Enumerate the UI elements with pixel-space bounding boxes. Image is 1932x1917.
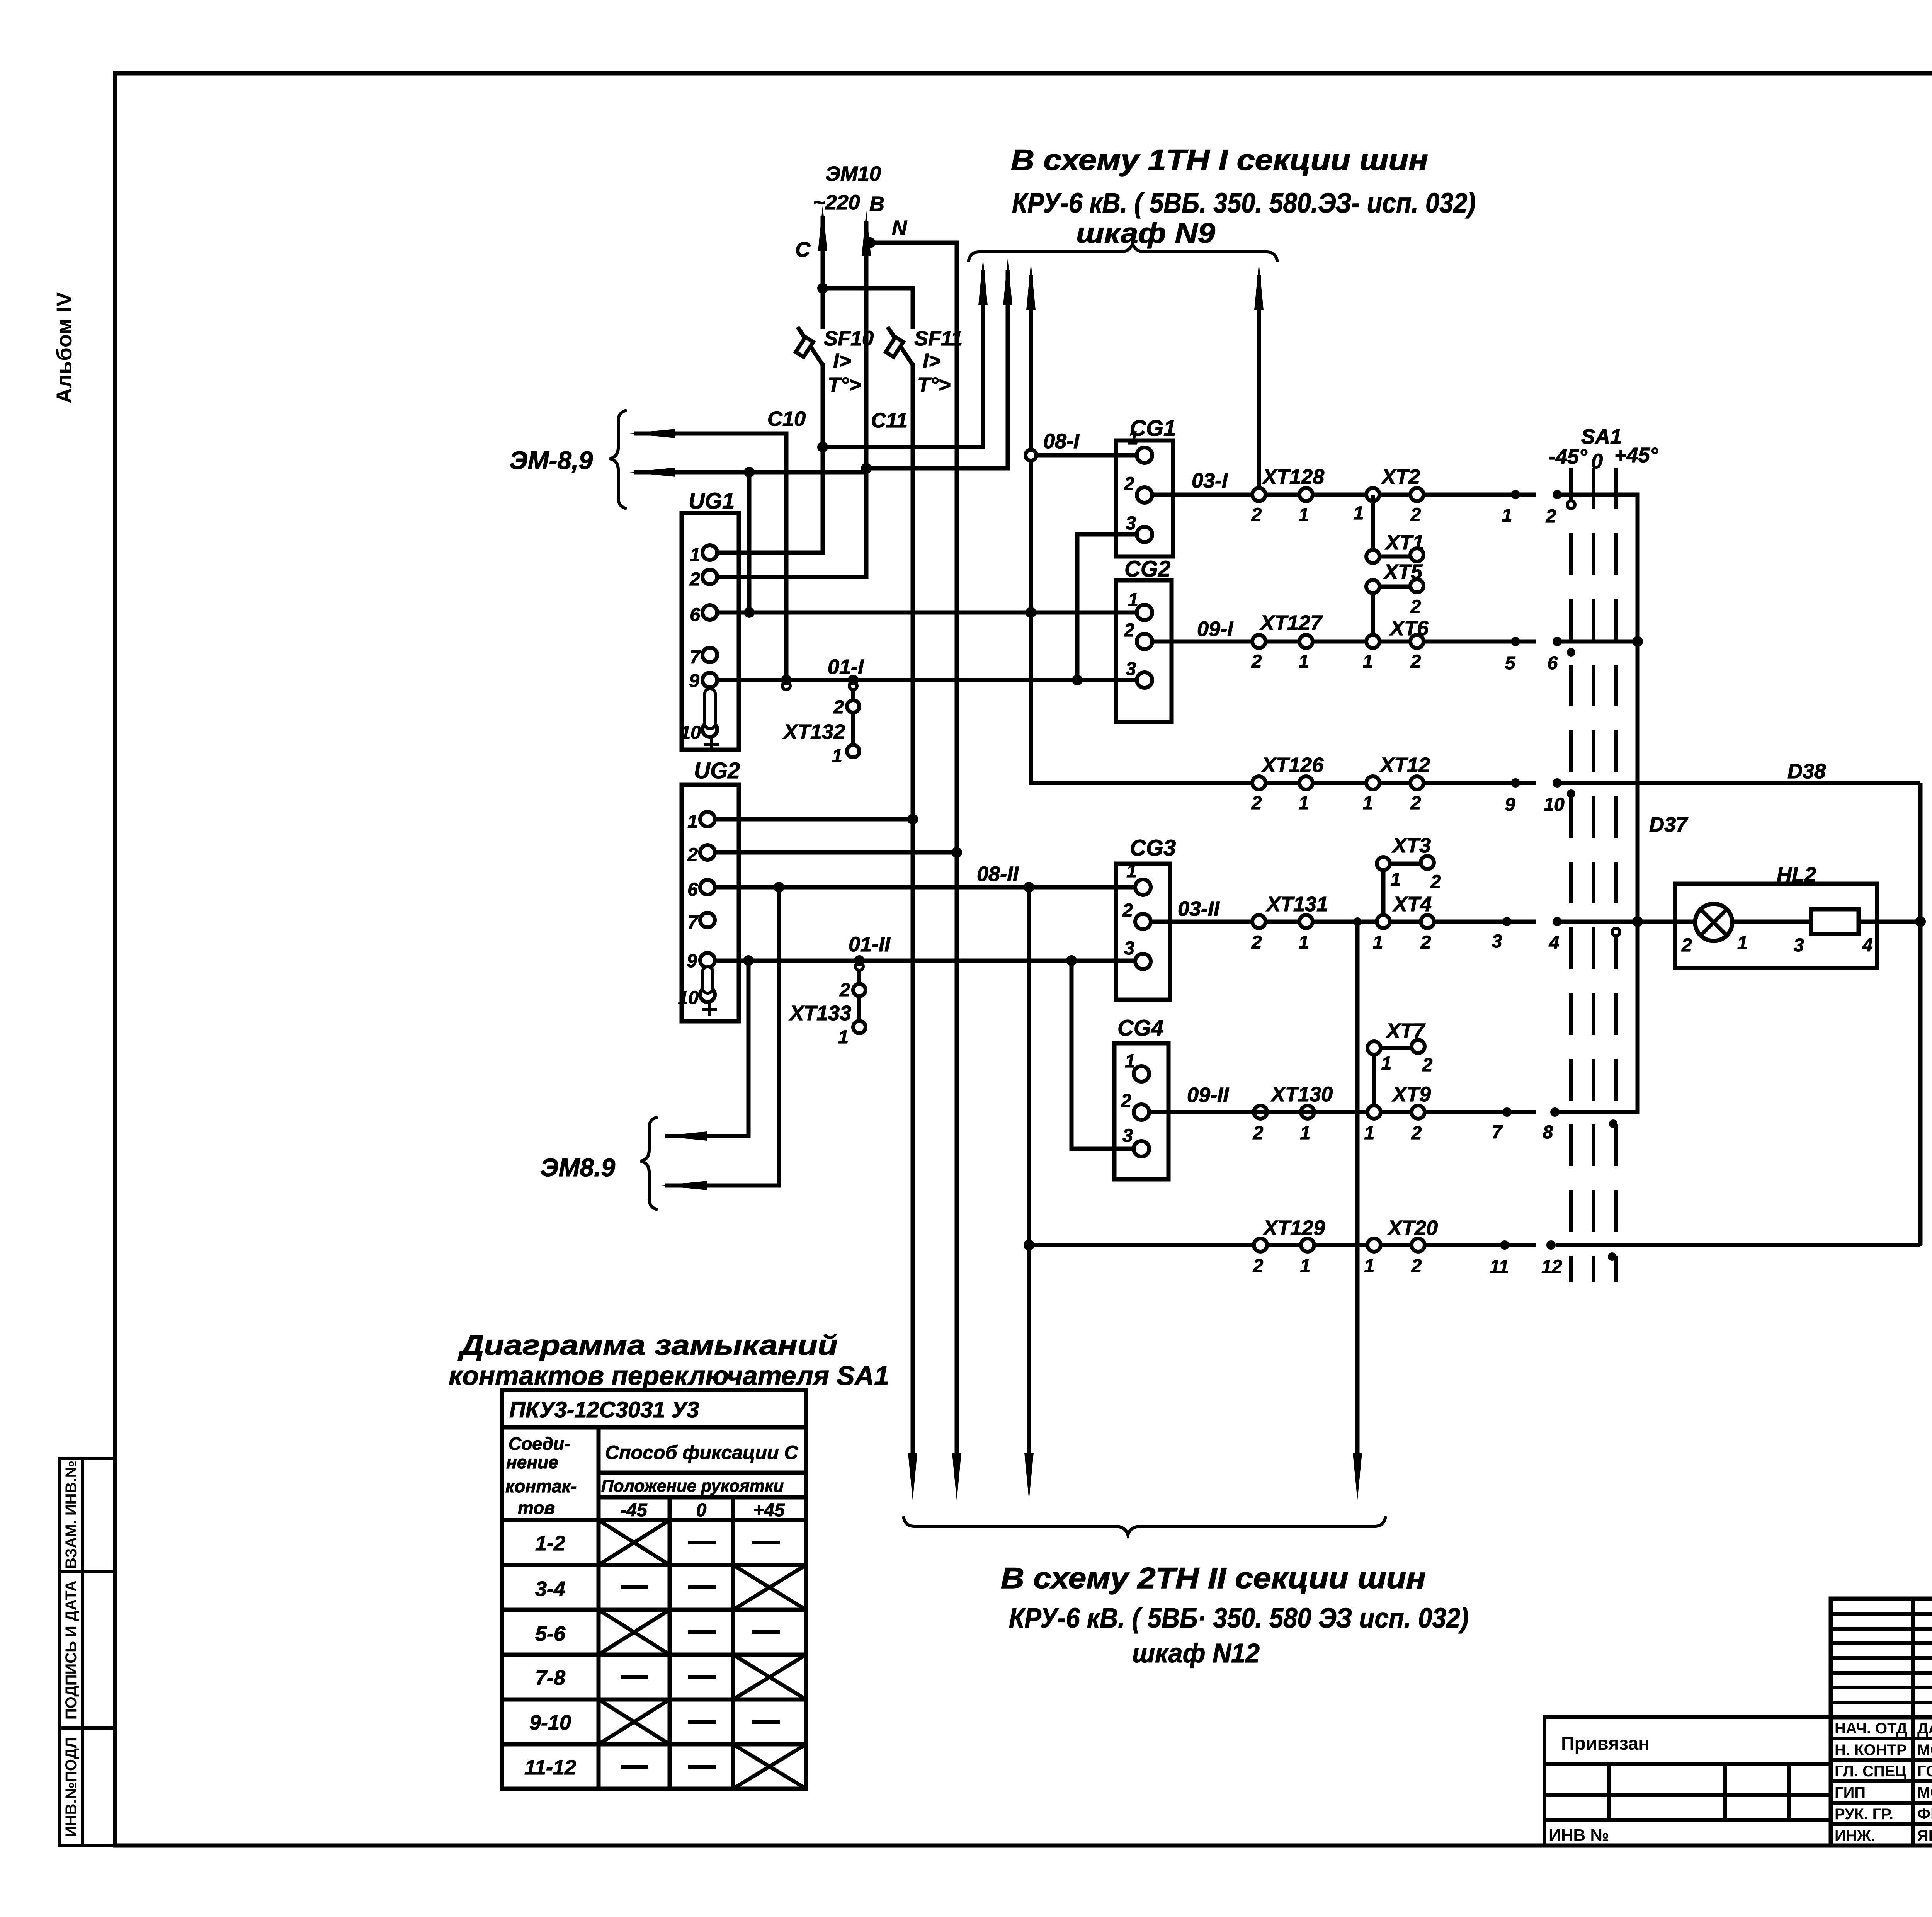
svg-text:3: 3: [1124, 938, 1134, 959]
terminal XT2: [1354, 465, 1423, 525]
svg-text:01-I: 01-I: [828, 655, 864, 679]
svg-text:-45°: -45°: [1549, 445, 1587, 468]
svg-text:2: 2: [1681, 935, 1692, 956]
wire UG2 pin 9 branch to ЭМ8,9: [661, 961, 748, 1141]
terminal XT131: [1251, 893, 1328, 953]
svg-text:2: 2: [1121, 1091, 1131, 1111]
breaker SF10: [796, 327, 874, 396]
svg-text:XT1: XT1: [1384, 531, 1424, 554]
svg-text:ЭМ-8,9: ЭМ-8,9: [509, 446, 593, 475]
svg-text:1: 1: [1300, 1256, 1311, 1276]
svg-text:МОСЕЕНКО: МОСЕЕНКО: [1917, 1742, 1932, 1759]
svg-text:N: N: [892, 216, 907, 240]
wire B branch to ЭМ-8,9: [629, 468, 866, 477]
svg-text:9-10: 9-10: [529, 1711, 571, 1734]
svg-text:08-II: 08-II: [977, 862, 1019, 886]
svg-text:5: 5: [1505, 653, 1516, 674]
svg-text:3: 3: [1492, 931, 1502, 952]
svg-text:10: 10: [680, 723, 701, 743]
wire C11 line down arrow: [908, 1453, 917, 1500]
svg-text:~220: ~220: [813, 191, 860, 214]
svg-text:ГОЛЬЦМАН: ГОЛЬЦМАН: [1917, 1763, 1932, 1780]
wire 08-II branch to ЭМ8,9: [661, 887, 779, 1190]
wire 08 line (arrow 3 down to 9-10 row corner): [1026, 263, 1920, 783]
svg-text:В схему 1ТН I секции шин: В схему 1ТН I секции шин: [1011, 144, 1428, 177]
svg-text:2: 2: [1251, 651, 1262, 672]
wire 01-II (UG2 pin 9 to CG3 pin 3): [715, 959, 1135, 963]
svg-text:C11: C11: [871, 409, 908, 432]
svg-text:В схему 2ТН II секции шин: В схему 2ТН II секции шин: [1001, 1562, 1426, 1595]
svg-text:Соеди-: Соеди-: [509, 1434, 570, 1454]
svg-text:XT132: XT132: [782, 720, 845, 743]
wire phase B vertical to UG1 pin 2: [718, 221, 866, 577]
svg-text:XT130: XT130: [1270, 1083, 1333, 1106]
svg-text:2: 2: [1411, 1256, 1422, 1276]
svg-text:1: 1: [690, 545, 700, 565]
svg-text:7: 7: [687, 912, 699, 933]
svg-text:01-II: 01-II: [849, 933, 891, 956]
svg-text:2: 2: [1251, 505, 1262, 525]
svg-text:ИНЖ.: ИНЖ.: [1835, 1827, 1875, 1844]
converter CG3: [1116, 835, 1176, 1000]
svg-text:2: 2: [689, 569, 700, 590]
wire 08-II (UG2 pin 6 to CG3 pin 1): [715, 885, 1135, 890]
terminal XT128: [1251, 465, 1324, 525]
terminal XT133: [789, 961, 866, 1048]
svg-text:1: 1: [1299, 932, 1309, 953]
svg-text:1: 1: [687, 811, 698, 832]
svg-text:XT20: XT20: [1387, 1216, 1438, 1240]
svg-text:1: 1: [1373, 932, 1383, 953]
svg-text:-45: -45: [620, 1500, 648, 1521]
svg-text:3: 3: [1126, 659, 1136, 679]
terminal XT7: [1367, 1019, 1433, 1112]
terminal XT20: [1364, 1216, 1438, 1276]
svg-text:3: 3: [1122, 1126, 1133, 1146]
svg-text:НАЧ. ОТД: НАЧ. ОТД: [1835, 1720, 1907, 1737]
contact closure table title: [449, 1330, 889, 1391]
svg-text:Диаграмма замыканий: Диаграмма замыканий: [457, 1330, 838, 1361]
note to scheme 1TH section I: [1011, 144, 1476, 249]
converter CG1: [1116, 416, 1176, 556]
contact closure table: [502, 1390, 806, 1789]
switch SA1 contacts 9-10: [1505, 778, 1575, 815]
svg-text:10: 10: [1544, 794, 1565, 815]
svg-text:1: 1: [1128, 590, 1138, 610]
wire phase C vertical: [718, 216, 823, 553]
svg-text:1: 1: [1502, 505, 1512, 526]
svg-text:6: 6: [687, 879, 698, 900]
svg-text:10: 10: [678, 988, 699, 1008]
svg-text:Привязан: Привязан: [1561, 1733, 1650, 1754]
svg-text:UG1: UG1: [689, 488, 735, 514]
svg-text:UG2: UG2: [694, 758, 740, 783]
svg-text:контак-: контак-: [505, 1476, 577, 1496]
wire 01-I from UG1 pin 9 to CG2 pin 3: [717, 678, 1137, 682]
svg-text:03-I: 03-I: [1192, 469, 1228, 492]
svg-text:ПОДПИСЬ И ДАТА: ПОДПИСЬ И ДАТА: [63, 1580, 80, 1720]
svg-text:T°>: T°>: [828, 373, 861, 396]
svg-text:Альбом IV: Альбом IV: [52, 292, 76, 403]
svg-text:11-12: 11-12: [524, 1756, 576, 1779]
switch SA1 contacts 7-8: [1492, 1107, 1617, 1143]
svg-text:09-II: 09-II: [1187, 1084, 1229, 1107]
svg-text:4: 4: [1862, 935, 1873, 956]
svg-text:2: 2: [1422, 1055, 1433, 1075]
svg-text:1: 1: [832, 746, 842, 766]
svg-text:7: 7: [690, 647, 701, 668]
svg-text:1: 1: [1126, 861, 1137, 881]
wire up-arrow 4 from XT128.2: [1254, 263, 1264, 488]
svg-text:XT9: XT9: [1391, 1083, 1431, 1106]
svg-text:09-I: 09-I: [1197, 617, 1233, 641]
switch SA1 contacts 3-4: [1492, 917, 1620, 953]
wire N loop (phase B to cabinet): [870, 243, 957, 1474]
svg-text:XT133: XT133: [789, 1002, 851, 1025]
svg-text:XT127: XT127: [1259, 611, 1323, 634]
svg-text:2: 2: [1410, 505, 1421, 525]
svg-text:0: 0: [1591, 450, 1603, 473]
breaker SF11: [886, 327, 963, 396]
svg-text:7: 7: [1492, 1122, 1503, 1143]
svg-text:+45: +45: [753, 1500, 785, 1521]
svg-text:1: 1: [1363, 651, 1373, 672]
svg-text:шкаф N12: шкаф N12: [1132, 1638, 1260, 1668]
svg-text:3: 3: [1794, 935, 1804, 956]
svg-text:1: 1: [1363, 793, 1373, 813]
wire 03-I row (CG1.2 to SA1 1-2 and D37): [1152, 495, 1638, 1112]
node C (phase C input ЭМ10): [795, 206, 827, 261]
svg-text:XT4: XT4: [1392, 893, 1432, 916]
svg-text:C: C: [795, 238, 811, 261]
svg-text:2: 2: [1410, 597, 1421, 617]
note to scheme 2TH section II: [1001, 1562, 1469, 1668]
svg-text:МОСЕЕНКО: МОСЕЕНКО: [1917, 1784, 1932, 1801]
svg-text:+45°: +45°: [1614, 444, 1658, 467]
svg-text:КРУ-6 кВ. ( 5ВБ. 350. 580.ЭЗ-: КРУ-6 кВ. ( 5ВБ. 350. 580.ЭЗ- исп. 032): [1012, 188, 1476, 219]
svg-text:ГЛ. СПЕЦ: ГЛ. СПЕЦ: [1835, 1763, 1906, 1780]
svg-text:ДАНИЛОВ: ДАНИЛОВ: [1917, 1720, 1932, 1737]
terminal XT4: [1373, 893, 1434, 953]
svg-text:2: 2: [839, 980, 850, 1000]
junction dots UG2 area: [743, 814, 1077, 1250]
label SA1 -45 0 +45: [1549, 425, 1658, 473]
svg-text:2: 2: [1420, 932, 1431, 953]
wire to cabinet arrow 2 (from B row): [866, 258, 1012, 468]
wire D37 junction dots: [1632, 636, 1643, 927]
svg-text:D37: D37: [1649, 813, 1689, 836]
svg-text:нение: нение: [506, 1452, 558, 1472]
wire UG1 pin 6 to CG2 pin 1: [717, 611, 1137, 615]
svg-text:2: 2: [1251, 932, 1262, 953]
wire 03-II row (CG3.2 toward HL2): [1151, 920, 1920, 924]
wire branch 01-II to CG4 pin 3: [1071, 961, 1134, 1149]
svg-text:I>: I>: [833, 349, 851, 373]
svg-text:2: 2: [833, 697, 844, 718]
svg-text:1: 1: [1299, 505, 1309, 525]
svg-text:5-6: 5-6: [535, 1622, 566, 1645]
svg-text:0: 0: [696, 1500, 707, 1521]
svg-text:1: 1: [1125, 1051, 1135, 1072]
svg-text:I>: I>: [923, 349, 941, 373]
svg-text:ИНВ №: ИНВ №: [1549, 1826, 1609, 1845]
svg-text:1: 1: [1299, 651, 1309, 672]
svg-text:ЭМ10: ЭМ10: [825, 162, 881, 185]
switch SA1 contacts 5-6: [1505, 637, 1575, 674]
svg-text:4: 4: [1549, 933, 1560, 953]
wire 08-I branch to CG1 pin 1: [1031, 453, 1137, 458]
svg-text:1: 1: [1299, 793, 1309, 813]
node C10 tap on 01-I: [782, 682, 790, 690]
svg-text:тов: тов: [518, 1498, 555, 1518]
svg-text:XT7: XT7: [1385, 1019, 1426, 1043]
terminal XT12: [1363, 754, 1430, 813]
label ЭМ8.9 with brace: [540, 1117, 658, 1209]
svg-text:XT6: XT6: [1389, 617, 1429, 640]
terminal XT127: [1251, 611, 1323, 672]
svg-text:6: 6: [690, 605, 700, 625]
svg-text:1: 1: [1354, 503, 1364, 524]
wire to cabinet arrow 1 (from C row): [823, 258, 988, 447]
svg-text:CG2: CG2: [1124, 556, 1170, 582]
svg-text:XT129: XT129: [1262, 1216, 1325, 1240]
label ЭМ10 ~220 В: [813, 162, 884, 216]
converter CG2: [1116, 556, 1172, 722]
svg-text:1: 1: [1391, 869, 1401, 890]
node D38-HL2 junction: [1915, 916, 1926, 927]
svg-text:РУК. ГР.: РУК. ГР.: [1835, 1806, 1893, 1823]
converter CG4: [1114, 1015, 1168, 1179]
svg-text:Н. КОНТР: Н. КОНТР: [1835, 1742, 1907, 1759]
svg-text:08-I: 08-I: [1043, 430, 1080, 453]
svg-text:9: 9: [689, 671, 699, 691]
svg-text:2: 2: [1430, 872, 1441, 892]
svg-text:КРУ-6 кВ. ( 5ВБ· 350. 580 ЭЗ и: КРУ-6 кВ. ( 5ВБ· 350. 580 ЭЗ исп. 032): [1009, 1603, 1469, 1634]
wire SF11 feed from C: [823, 288, 913, 1474]
wire CG1 pin 3 link down to 01-I: [1077, 534, 1137, 680]
svg-text:В: В: [869, 192, 884, 216]
svg-text:2: 2: [1122, 900, 1133, 921]
svg-text:2: 2: [1546, 506, 1556, 527]
wire 03-II down branch (arrow to 2ТН): [1353, 922, 1362, 1500]
junction dots upper left: [744, 237, 1083, 685]
terminal XT126: [1251, 754, 1324, 813]
svg-text:1: 1: [1300, 1123, 1311, 1143]
svg-text:ВЗАМ. ИНВ.№: ВЗАМ. ИНВ.№: [63, 1461, 80, 1569]
svg-text:2: 2: [1253, 1123, 1264, 1143]
svg-text:SF10: SF10: [824, 327, 874, 350]
wire D38 (9-10 row down to 11-12 row): [1918, 783, 1923, 1245]
svg-text:1: 1: [838, 1027, 849, 1048]
terminal XT1: [1366, 495, 1424, 563]
node B (phase B input): [862, 211, 907, 256]
svg-text:7-8: 7-8: [535, 1666, 565, 1689]
svg-text:8: 8: [1543, 1122, 1553, 1143]
svg-text:D38: D38: [1787, 760, 1826, 783]
svg-text:XT128: XT128: [1262, 465, 1324, 488]
svg-text:контактов переключателя SA1: контактов переключателя SA1: [449, 1361, 889, 1391]
svg-text:2: 2: [1124, 620, 1134, 641]
svg-text:ЯНЧЕНКО: ЯНЧЕНКО: [1917, 1827, 1932, 1844]
svg-text:3: 3: [1126, 513, 1136, 534]
svg-text:C10: C10: [767, 407, 806, 430]
svg-text:1: 1: [1737, 933, 1748, 953]
svg-text:1-2: 1-2: [535, 1532, 565, 1555]
node 03-II branch: [1353, 917, 1362, 926]
svg-text:T°>: T°>: [917, 373, 951, 396]
svg-text:ЭМ8.9: ЭМ8.9: [540, 1153, 615, 1182]
svg-text:11: 11: [1490, 1257, 1509, 1277]
svg-text:Способ фиксации С: Способ фиксации С: [605, 1442, 798, 1463]
rectifier UG2: [678, 758, 740, 1021]
terminal XT6: [1363, 617, 1429, 672]
wire UG2 pin 2 to N line: [715, 850, 957, 855]
terminal XT132: [782, 680, 859, 766]
terminal XT129: [1253, 1216, 1325, 1276]
svg-text:ПКУ3-12С3031 У3: ПКУ3-12С3031 У3: [509, 1397, 699, 1422]
switch SA1 contacts 11-12: [1490, 1240, 1616, 1277]
wire UG2 pin 1 to C11 line: [715, 817, 913, 822]
wire 11-12 row: [1029, 1245, 1920, 1246]
svg-text:2: 2: [1251, 793, 1262, 813]
svg-text:2: 2: [1410, 651, 1421, 672]
wire 09-I row (CG2.2 to SA1 5-6 and D37): [1152, 640, 1638, 644]
svg-text:XT126: XT126: [1261, 754, 1324, 777]
terminal XT3: [1377, 834, 1441, 922]
terminal XT9: [1364, 1083, 1431, 1143]
svg-text:9: 9: [1505, 794, 1515, 815]
title block: [1544, 1599, 1932, 1846]
svg-text:1: 1: [1381, 1053, 1392, 1074]
svg-text:ИНВ.№ПОДЛ: ИНВ.№ПОДЛ: [63, 1737, 80, 1837]
svg-text:1: 1: [1364, 1123, 1375, 1143]
svg-text:1: 1: [1128, 428, 1138, 449]
lamp unit HL2: [1675, 863, 1877, 968]
brace шкаф N9: [968, 243, 1277, 262]
wire branch pin6 row up to ЭМ-8,9 line: [747, 472, 752, 612]
svg-text:XT12: XT12: [1379, 754, 1430, 777]
svg-text:CG3: CG3: [1130, 835, 1176, 861]
svg-text:2: 2: [1410, 793, 1421, 813]
svg-text:XT131: XT131: [1265, 893, 1328, 916]
label ЭМ-8,9 with brace: [509, 410, 627, 509]
svg-text:2: 2: [1124, 474, 1134, 494]
svg-text:2: 2: [687, 845, 698, 865]
wire 09-II row (CG4.2 to SA1 7-8): [1149, 1110, 1638, 1114]
switch SA1 dashed position lines: [1571, 468, 1616, 1282]
svg-text:ФЕДОРОВА: ФЕДОРОВА: [1917, 1806, 1932, 1823]
svg-text:XT3: XT3: [1391, 834, 1431, 857]
terminal XT130: [1253, 1083, 1333, 1143]
switch SA1 contacts 1-2: [1502, 490, 1575, 527]
wire 08-II down branch (arrow to 2ТН): [1024, 887, 1034, 1500]
brace шкаф N12: [903, 1516, 1386, 1535]
wire C10 branch to ЭМ-8,9: [629, 429, 786, 680]
svg-text:CG4: CG4: [1117, 1015, 1163, 1041]
svg-text:2: 2: [1411, 1123, 1422, 1143]
svg-text:12: 12: [1541, 1257, 1562, 1277]
terminal XT5: [1366, 560, 1423, 641]
svg-text:9: 9: [687, 951, 697, 971]
svg-text:6: 6: [1548, 653, 1558, 674]
svg-text:Положение рукоятки: Положение рукоятки: [601, 1476, 784, 1495]
node 08-I junction circle: [1026, 450, 1036, 461]
wire N line down arrow: [952, 1453, 961, 1500]
svg-text:ГИП: ГИП: [1835, 1784, 1866, 1801]
svg-text:03-II: 03-II: [1178, 897, 1220, 920]
svg-text:3-4: 3-4: [535, 1577, 565, 1601]
svg-text:1: 1: [1364, 1256, 1375, 1276]
svg-text:XT5: XT5: [1383, 560, 1423, 583]
svg-text:2: 2: [1253, 1256, 1264, 1276]
svg-text:XT2: XT2: [1381, 465, 1420, 488]
svg-text:шкаф N9: шкаф N9: [1076, 218, 1215, 249]
rectifier UG1: [680, 488, 739, 751]
